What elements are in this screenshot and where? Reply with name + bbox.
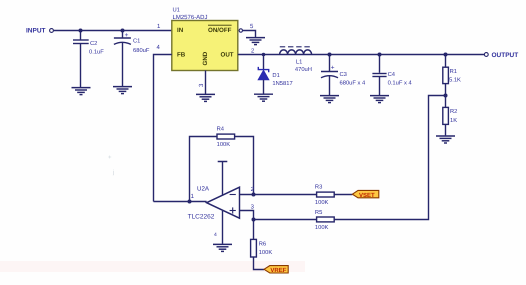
svg-text:U2A: U2A [197, 185, 210, 192]
svg-text:C4: C4 [388, 71, 396, 78]
svg-text:+: + [108, 155, 112, 161]
svg-text:L1: L1 [296, 59, 302, 65]
svg-text:4: 4 [214, 232, 217, 238]
svg-text:U1: U1 [173, 8, 180, 14]
svg-text:R3: R3 [315, 184, 322, 191]
resistor R2 1K [443, 107, 458, 135]
op-amp V+ rail [218, 162, 228, 196]
wire U1 GND pin [205, 71, 207, 95]
svg-text:TLC2262: TLC2262 [188, 213, 215, 220]
node output/feedback [188, 200, 192, 204]
svg-text:100K: 100K [259, 249, 273, 256]
node + input [252, 218, 256, 222]
svg-text:R4: R4 [217, 127, 225, 133]
svg-text:1K: 1K [450, 118, 457, 124]
svg-text:VREF: VREF [270, 267, 286, 274]
pin 5 ON/OFF terminal and wire [239, 29, 255, 37]
svg-text:GND: GND [202, 51, 209, 65]
faint scan band [0, 261, 305, 272]
svg-text:100K: 100K [315, 199, 329, 206]
svg-text:R2: R2 [450, 108, 457, 115]
svg-text:100K: 100K [217, 141, 231, 148]
svg-text:ON/OFF: ON/OFF [208, 27, 232, 34]
ground (C4) [370, 96, 389, 103]
wire input rail [54, 30, 172, 32]
node input/C2 [79, 29, 83, 33]
resistor R4 100K feedback [190, 127, 254, 202]
node C3 [328, 53, 332, 57]
resistor R1 5.1K [443, 55, 461, 108]
svg-text:5.1K: 5.1K [449, 78, 461, 84]
svg-text:LM2576-ADJ: LM2576-ADJ [173, 14, 208, 21]
resistor R5 100K [254, 210, 335, 231]
ground (C3) [320, 96, 339, 103]
svg-text:j: j [112, 169, 114, 176]
svg-text:+: + [331, 64, 335, 71]
ground (R2) [436, 136, 455, 143]
svg-text:680uF x 4: 680uF x 4 [340, 79, 367, 86]
svg-text:FB: FB [177, 51, 186, 58]
op-amp V- rail [222, 211, 224, 244]
capacitor C2 [73, 31, 104, 88]
svg-text:R5: R5 [315, 210, 322, 216]
svg-text:100K: 100K [315, 224, 329, 231]
svg-text:470uH: 470uH [295, 66, 312, 73]
capacitor C4 [372, 55, 412, 96]
op-amp U2A TLC2262 [188, 185, 240, 220]
svg-text:R6: R6 [259, 240, 266, 247]
svg-text:0.1uF x 4: 0.1uF x 4 [388, 79, 413, 86]
node R1 [444, 53, 448, 57]
resistor R6 100K [251, 220, 273, 270]
ground (pin5) [246, 38, 265, 45]
INPUT terminal [26, 28, 53, 35]
wire op-amp output to FB vertical [154, 201, 207, 203]
ground (D1) [254, 94, 273, 101]
wire tap to R5 [334, 96, 445, 220]
svg-text:R1: R1 [450, 69, 457, 75]
ground (C2) [72, 88, 91, 95]
ground (U1 GND) [196, 94, 215, 101]
node input/C1 [121, 29, 125, 33]
node R1/R2 tap [444, 94, 448, 98]
capacitor C3 [321, 55, 366, 96]
svg-text:1N5817: 1N5817 [272, 80, 292, 87]
resistor R3 100K [315, 184, 353, 206]
node C4 [378, 53, 382, 57]
svg-text:0.1uF: 0.1uF [89, 49, 104, 56]
wire + input [239, 211, 254, 220]
capacitor C1 [114, 31, 150, 87]
svg-text:IN: IN [177, 27, 184, 34]
OUTPUT terminal [484, 52, 518, 59]
svg-text:C2: C2 [90, 40, 97, 47]
svg-text:680uF: 680uF [133, 47, 150, 54]
ground (op-amp) [213, 244, 232, 251]
svg-text:C1: C1 [133, 37, 140, 44]
svg-text:VSET: VSET [359, 192, 375, 199]
diode D1 1N5817 [258, 55, 293, 94]
IC U1 LM2576-ADJ [172, 8, 238, 71]
net label VREF [264, 266, 288, 274]
node D1 [262, 53, 266, 57]
svg-text:D1: D1 [272, 73, 279, 79]
svg-text:C3: C3 [340, 71, 347, 78]
net label VSET [352, 190, 378, 198]
wire output rail [238, 54, 484, 56]
svg-text:OUT: OUT [221, 51, 234, 58]
node - input [252, 193, 256, 197]
wire FB to op-amp output [154, 55, 172, 202]
inductor L1 [280, 47, 312, 73]
ground (C1) [113, 87, 132, 94]
svg-text:OUTPUT: OUTPUT [492, 52, 519, 59]
svg-text:INPUT: INPUT [26, 28, 46, 35]
wire - input [239, 194, 317, 196]
